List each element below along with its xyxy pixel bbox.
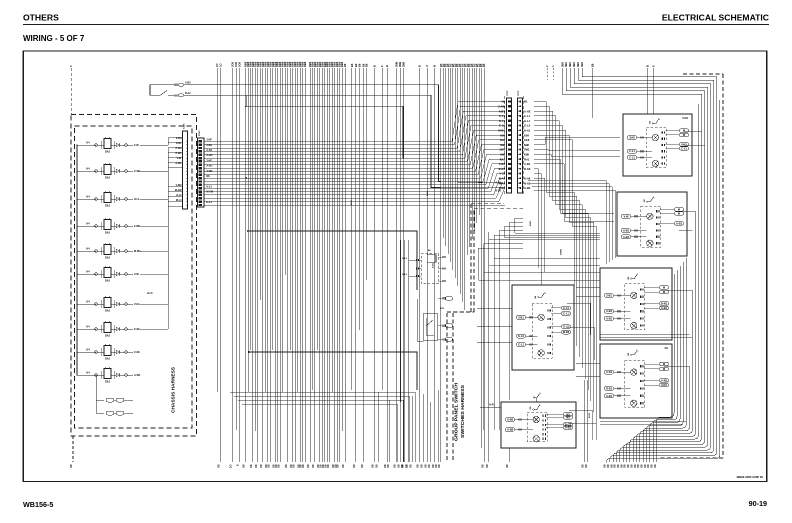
svg-text:B: B	[372, 65, 376, 67]
svg-text:M-B0: M-B0	[563, 330, 570, 334]
wires module U1 to margin	[684, 130, 702, 132]
svg-text:O8: O8	[249, 464, 253, 468]
svg-text:O8: O8	[360, 464, 364, 468]
svg-text:A-W1: A-W1	[207, 165, 214, 168]
svg-text:OTHERS: OTHERS	[23, 13, 59, 23]
connector strip CN2 left half	[507, 98, 512, 193]
svg-text:O8: O8	[580, 464, 584, 468]
svg-text:DA2: DA2	[105, 280, 111, 283]
switch module U3	[600, 268, 672, 340]
svg-text:B-A8: B-A8	[524, 177, 531, 181]
svg-text:B: B	[385, 65, 389, 67]
svg-text:WB90-3000 A00P 20: WB90-3000 A00P 20	[737, 475, 764, 479]
svg-text:O8: O8	[401, 464, 405, 468]
svg-text:B-A2: B-A2	[185, 92, 191, 95]
schematic frame	[23, 51, 767, 481]
svg-text:V-G1: V-G1	[134, 303, 140, 306]
svg-text:A-B1: A-B1	[565, 426, 572, 430]
svg-text:N1: N1	[524, 100, 528, 104]
svg-text:DA2: DA2	[105, 151, 111, 154]
svg-text:H-L2: H-L2	[176, 194, 182, 197]
svg-text:A-B1: A-B1	[623, 235, 630, 239]
wire bundle between modules U1 and U2	[528, 181, 606, 265]
chassis harness diode module DA2 row 9	[77, 351, 96, 353]
svg-text:O8: O8	[267, 464, 271, 468]
wires CN2 to switch module U1	[534, 137, 620, 145]
wires into module U5 left	[477, 307, 512, 309]
svg-text:M-B1: M-B1	[530, 220, 532, 226]
corridor wires continuing down left of U5	[509, 235, 511, 400]
svg-text:O8: O8	[650, 464, 654, 468]
svg-text:O8: O8	[291, 464, 295, 468]
svg-text:C-B1: C-B1	[176, 142, 182, 145]
svg-text:3B8: 3B8	[576, 62, 580, 67]
svg-text:M-AW: M-AW	[207, 191, 214, 194]
riser wires left of relay R1	[400, 240, 402, 462]
svg-text:DA2: DA2	[105, 177, 111, 180]
chassis harness diode module DA2 row 6	[77, 273, 96, 275]
module U6 toggle above box	[535, 397, 538, 399]
chassis harness supply bus wire	[76, 145, 78, 375]
svg-text:O8: O8	[427, 464, 431, 468]
svg-text:O8: O8	[336, 464, 340, 468]
svg-text:O8: O8	[371, 464, 375, 468]
svg-text:C-L1: C-L1	[563, 312, 569, 316]
svg-text:O8: O8	[404, 464, 408, 468]
svg-text:O8: O8	[301, 464, 305, 468]
svg-text:V-N1: V-N1	[681, 142, 687, 146]
svg-text:M: M	[678, 211, 680, 215]
header rule	[23, 24, 769, 26]
chassis harness diode module DA2 row 7	[77, 303, 96, 305]
svg-text:2NB: 2NB	[398, 62, 402, 67]
svg-text:O8: O8	[386, 464, 390, 468]
svg-text:A-AE: A-AE	[524, 109, 531, 113]
svg-text:V-21: V-21	[177, 157, 183, 160]
svg-text:A-N2: A-N2	[661, 378, 668, 382]
svg-text:A-B1: A-B1	[432, 262, 435, 268]
svg-text:N98: N98	[524, 143, 529, 147]
battery switch SW1 loop	[150, 85, 174, 96]
svg-text:SWITCHES HARNESS: SWITCHES HARNESS	[460, 385, 465, 438]
svg-text:O8: O8	[311, 464, 315, 468]
svg-text:B: B	[646, 65, 650, 67]
svg-text:M: M	[663, 290, 665, 294]
switch module U6 group panel bottom	[501, 402, 576, 448]
svg-text:N1: N1	[665, 346, 669, 350]
svg-text:A-N1: A-N1	[606, 370, 613, 374]
connector CN2 dashed boundary	[504, 96, 506, 196]
chassis harness diode module DA2 row 4	[77, 225, 96, 227]
svg-text:3B8: 3B8	[580, 62, 584, 67]
svg-text:2W88: 2W88	[561, 249, 563, 255]
svg-text:H-R1: H-R1	[489, 404, 495, 407]
relay module R2	[424, 313, 438, 340]
svg-text:H-L3: H-L3	[402, 258, 408, 260]
svg-text:O8: O8	[485, 464, 489, 468]
wires into module U3	[576, 286, 600, 288]
svg-text:DA2: DA2	[105, 335, 111, 338]
svg-text:A-B1: A-B1	[495, 182, 501, 185]
chassis harness connector pair row 2	[96, 400, 104, 413]
svg-text:O: O	[425, 65, 429, 67]
wires module U3 to margin	[664, 289, 692, 291]
svg-text:O8: O8	[242, 464, 246, 468]
svg-text:R-B1: R-B1	[606, 386, 613, 390]
svg-text:B8: B8	[591, 63, 595, 67]
switch module U5 center	[512, 285, 574, 370]
svg-text:3O8: 3O8	[238, 62, 242, 67]
svg-text:O8: O8	[341, 464, 345, 468]
battery feed branch wire	[246, 106, 403, 158]
svg-text:M-AW: M-AW	[175, 189, 182, 192]
harness dashed boundary right side	[683, 73, 723, 75]
svg-text:B: B	[417, 65, 421, 67]
svg-text:N-A1: N-A1	[524, 129, 531, 133]
svg-text:O8: O8	[603, 464, 607, 468]
chassis harness diode module DA2 row 1	[77, 144, 96, 146]
svg-text:A-B2: A-B2	[185, 82, 191, 85]
svg-text:B6: B6	[343, 63, 347, 67]
svg-text:2NB: 2NB	[394, 62, 398, 67]
svg-text:DA2: DA2	[105, 310, 111, 313]
svg-text:O8: O8	[434, 464, 438, 468]
connector strip CN1 left half	[183, 131, 188, 209]
svg-text:DA2: DA2	[105, 358, 111, 361]
svg-text:2-N1: 2-N1	[606, 293, 612, 297]
svg-text:O8: O8	[616, 464, 620, 468]
svg-text:O8: O8	[646, 464, 650, 468]
svg-text:O8: O8	[408, 464, 412, 468]
chassis harness dashed stub to bottom terminal	[72, 436, 74, 462]
svg-text:O8: O8	[584, 464, 588, 468]
svg-text:G-L5: G-L5	[563, 325, 569, 329]
svg-text:C-W1: C-W1	[175, 152, 182, 155]
wires CN2 right upper to gap cascade	[534, 102, 574, 336]
chassis harness diode module DA2 row 2	[77, 170, 96, 172]
svg-text:O8: O8	[636, 464, 640, 468]
wire wraps below module U3	[600, 334, 689, 336]
wire wraps below module U4	[600, 420, 686, 422]
svg-text:C-W0: C-W0	[175, 147, 182, 150]
svg-text:2-BH: 2-BH	[176, 137, 182, 140]
svg-text:N: N	[433, 65, 437, 67]
long horizontal wire row 178	[246, 177, 440, 179]
svg-text:N1: N1	[502, 100, 506, 104]
svg-text:H-L5: H-L5	[147, 292, 153, 295]
svg-text:O8: O8	[326, 464, 330, 468]
switch module U4	[600, 344, 672, 418]
svg-text:M-W1: M-W1	[134, 250, 141, 253]
svg-text:SA8: SA8	[524, 138, 530, 142]
svg-text:O8: O8	[653, 464, 657, 468]
svg-text:2O: 2O	[229, 465, 233, 468]
svg-text:90-19: 90-19	[749, 499, 767, 508]
svg-text:7PTC: 7PTC	[518, 90, 520, 96]
svg-text:B-N1: B-N1	[661, 301, 668, 305]
svg-text:DA2: DA2	[105, 232, 111, 235]
svg-text:RA1: RA1	[524, 157, 530, 161]
svg-text:M: M	[663, 285, 665, 289]
svg-text:C-L1: C-L1	[629, 155, 635, 159]
svg-text:C-Rn: C-Rn	[134, 351, 140, 354]
svg-text:X14X: X14X	[183, 123, 186, 129]
svg-text:O8: O8	[217, 464, 221, 468]
chassis harness diode module DA2 row 5	[77, 250, 96, 252]
svg-text:2-W: 2-W	[134, 144, 139, 147]
wires into module U4	[576, 362, 600, 364]
svg-text:O8: O8	[393, 464, 397, 468]
svg-text:RB8: RB8	[303, 61, 307, 67]
harness dashed boundary group panel	[446, 312, 448, 460]
svg-text:A-B1: A-B1	[524, 162, 531, 166]
svg-text:A-B1: A-B1	[606, 316, 613, 320]
svg-text:O8: O8	[416, 464, 420, 468]
svg-text:7PTC: 7PTC	[507, 90, 509, 96]
svg-text:2NB: 2NB	[402, 62, 406, 67]
svg-text:A-B1: A-B1	[623, 228, 630, 232]
wires module U4 to margin	[664, 365, 689, 367]
svg-text:A-B6: A-B6	[507, 418, 514, 422]
svg-text:V-W: V-W	[624, 214, 629, 218]
svg-text:M: M	[663, 367, 665, 371]
chassis harness diode module DA2 row 10	[77, 374, 96, 376]
svg-text:V-N1: V-N1	[682, 116, 688, 120]
svg-text:G-L5: G-L5	[524, 124, 531, 128]
wires CN2 lower to below bundle	[534, 169, 538, 268]
connector strip CN2 right half	[518, 98, 523, 193]
wire CN1 pin 20 to cascade	[205, 204, 506, 206]
svg-text:DA2: DA2	[105, 205, 111, 208]
chassis harness wiring to connector strip	[140, 138, 183, 146]
svg-text:RTL2: RTL2	[199, 130, 201, 136]
connector strip CN1 right half	[198, 138, 205, 207]
svg-text:2-BH: 2-BH	[207, 144, 213, 147]
svg-text:B6: B6	[354, 63, 358, 67]
svg-text:A-B1: A-B1	[676, 221, 683, 225]
chassis harness diode module DA2 row 8	[77, 328, 96, 330]
svg-text:A-B1: A-B1	[606, 309, 613, 313]
chassis harness inner dashed box	[75, 126, 193, 428]
terminal column wires with top and bottom labels	[216, 68, 218, 392]
svg-text:C-W1: C-W1	[134, 170, 141, 173]
svg-text:O8: O8	[259, 464, 263, 468]
svg-text:M: M	[663, 362, 665, 366]
svg-text:GROUP PANEL SWITCH: GROUP PANEL SWITCH	[454, 382, 459, 441]
svg-text:O8: O8	[352, 464, 356, 468]
svg-text:ELECTRICAL SCHEMATIC: ELECTRICAL SCHEMATIC	[662, 13, 769, 23]
svg-text:C-L1: C-L1	[563, 306, 569, 310]
svg-text:O8: O8	[254, 464, 258, 468]
battery feed wire upper	[184, 85, 505, 183]
svg-text:WIRING - 5 OF 7: WIRING - 5 OF 7	[23, 34, 85, 43]
switch module U1 V-N1	[623, 114, 692, 176]
svg-text:V-W: V-W	[134, 273, 139, 276]
svg-text:2-HF: 2-HF	[207, 159, 213, 162]
svg-text:O8: O8	[623, 464, 627, 468]
svg-text:B-G6: B-G6	[524, 167, 531, 171]
svg-text:C-L1: C-L1	[629, 149, 635, 153]
svg-text:WB156-5: WB156-5	[23, 500, 53, 509]
svg-text:2-B1: 2-B1	[518, 315, 524, 319]
svg-text:H-L3: H-L3	[402, 274, 408, 276]
svg-text:O8: O8	[431, 464, 435, 468]
wires CN2 to switch module U2	[534, 159, 614, 213]
svg-text:DA2: DA2	[105, 257, 111, 260]
svg-text:O8: O8	[306, 464, 310, 468]
svg-text:A-B0: A-B0	[524, 186, 531, 190]
svg-text:K84: K84	[524, 133, 529, 137]
svg-text:SA8: SA8	[629, 136, 635, 140]
svg-text:M: M	[678, 207, 680, 211]
horizontal bundle near group panel	[230, 392, 415, 462]
svg-text:O8: O8	[69, 464, 73, 468]
wires out of module U6 right	[569, 410, 592, 440]
battery feed wire lower	[184, 95, 505, 187]
svg-text:3B8: 3B8	[572, 62, 576, 67]
long horizontal wire row 231	[248, 231, 417, 290]
svg-text:H-L2: H-L2	[207, 185, 213, 188]
svg-text:M-L4: M-L4	[176, 199, 182, 202]
connector strip CN1 pins	[198, 140, 202, 142]
svg-text:2W1: 2W1	[524, 148, 530, 152]
svg-text:B5: B5	[482, 63, 486, 67]
svg-text:2-WF: 2-WF	[134, 225, 141, 228]
svg-text:A-B8: A-B8	[507, 428, 514, 432]
long horizontal wire row 352	[249, 352, 417, 390]
svg-text:V-W0: V-W0	[176, 184, 183, 187]
svg-text:C-Bn: C-Bn	[134, 328, 140, 331]
svg-text:A-B1: A-B1	[426, 190, 429, 196]
switch module U2	[617, 192, 687, 256]
svg-text:3B8: 3B8	[564, 62, 568, 67]
svg-text:B6: B6	[350, 63, 354, 67]
svg-text:B6: B6	[358, 63, 362, 67]
svg-text:C-L1: C-L1	[518, 343, 524, 347]
chassis harness outer dashed box	[71, 115, 197, 437]
svg-text:2O: 2O	[219, 64, 223, 67]
svg-text:O8: O8	[375, 464, 379, 468]
svg-text:G-L1: G-L1	[524, 119, 531, 123]
svg-text:H-L1: H-L1	[134, 198, 140, 201]
svg-text:M: M	[683, 129, 685, 133]
svg-text:A-B1: A-B1	[661, 306, 668, 310]
wire into module U6 H-R1	[480, 406, 501, 408]
connector strip CN2 pins	[508, 100, 511, 102]
svg-text:3B8: 3B8	[560, 62, 564, 67]
svg-text:B-G1: B-G1	[589, 412, 591, 418]
svg-text:N3: N3	[566, 415, 570, 419]
chassis harness connector pair row 1	[96, 375, 104, 400]
svg-text:O8: O8	[613, 464, 617, 468]
svg-text:B6: B6	[365, 63, 369, 67]
chassis harness diode module DA2 row 3	[77, 198, 96, 200]
svg-text:O8: O8	[423, 464, 427, 468]
svg-text:O8: O8	[629, 464, 633, 468]
svg-text:O8: O8	[276, 464, 280, 468]
svg-text:3O8: 3O8	[234, 62, 238, 67]
svg-text:O8: O8	[284, 464, 288, 468]
svg-text:K98: K98	[524, 153, 529, 157]
svg-text:M: M	[683, 133, 685, 137]
svg-text:A-W1: A-W1	[134, 374, 141, 377]
svg-text:CHASSIS HARNESS: CHASSIS HARNESS	[171, 367, 176, 413]
wire cascade below CN2 to group panel corridor	[515, 218, 600, 233]
svg-text:2-N1: 2-N1	[661, 383, 667, 387]
svg-text:C-L1: C-L1	[524, 114, 530, 118]
svg-text:A-W1: A-W1	[175, 162, 182, 165]
svg-text:O8: O8	[397, 464, 401, 468]
svg-text:DA2: DA2	[105, 381, 111, 384]
svg-text:O8: O8	[419, 464, 423, 468]
svg-text:O8: O8	[480, 464, 484, 468]
svg-text:N-A3: N-A3	[524, 181, 531, 185]
wires module U2 to margin	[679, 210, 695, 212]
svg-text:3O8: 3O8	[231, 62, 235, 67]
svg-text:O8: O8	[505, 464, 509, 468]
relay module R1	[421, 254, 439, 284]
svg-text:G-L0: G-L0	[518, 334, 524, 338]
svg-text:A-B1: A-B1	[606, 394, 613, 398]
svg-text:C-L1: C-L1	[681, 146, 687, 150]
svg-text:2O: 2O	[215, 64, 219, 67]
svg-text:3B8: 3B8	[568, 62, 572, 67]
wire bundle CN1 to CN2	[205, 102, 506, 142]
svg-text:A-B0: A-B0	[495, 189, 501, 192]
wires out of module U5 right	[567, 303, 590, 335]
